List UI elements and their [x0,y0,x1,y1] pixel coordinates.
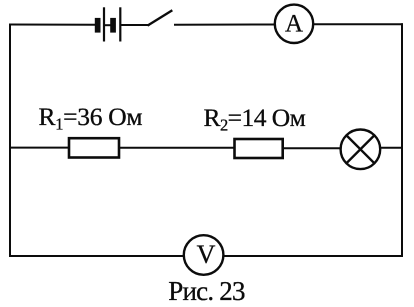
lamp EL cross stroke 1 [347,136,375,164]
resistor R1 box [69,138,119,157]
resistor R2 box [235,139,283,158]
wire R1 to R2 [119,147,235,149]
battery GB cell2 long plate [119,7,121,41]
svg-text:V: V [197,240,216,269]
wire left vertical [9,25,11,257]
wire switch to ammeter [175,24,275,26]
lamp EL circle [341,130,381,170]
wire battery to switch [121,24,148,26]
wire bottom-left to voltmeter [10,255,184,257]
wire middle-left from node to R1 [10,147,69,149]
wire R2 to lamp [283,147,341,149]
battery GB cell2 short plate [110,18,116,33]
voltmeter V circle [184,235,224,275]
switch K open blade [149,11,172,25]
wire top-left to battery [10,24,95,26]
wire between battery cells [105,24,110,26]
wire ammeter to top-right corner [313,23,402,25]
battery GB cell1 short plate [95,18,101,33]
svg-text:R2=14 Ом: R2=14 Ом [204,103,306,135]
svg-text:Рис. 23: Рис. 23 [168,276,245,306]
wire lamp to right vertical [380,147,402,149]
lamp EL cross stroke 2 [347,136,375,164]
svg-text:R1=36 Ом: R1=36 Ом [39,102,143,134]
svg-text:A: A [285,11,303,38]
wire right vertical [401,24,403,256]
battery GB cell1 long plate [103,7,105,41]
wire voltmeter to bottom-right corner [223,255,402,257]
ammeter A circle [275,5,313,43]
